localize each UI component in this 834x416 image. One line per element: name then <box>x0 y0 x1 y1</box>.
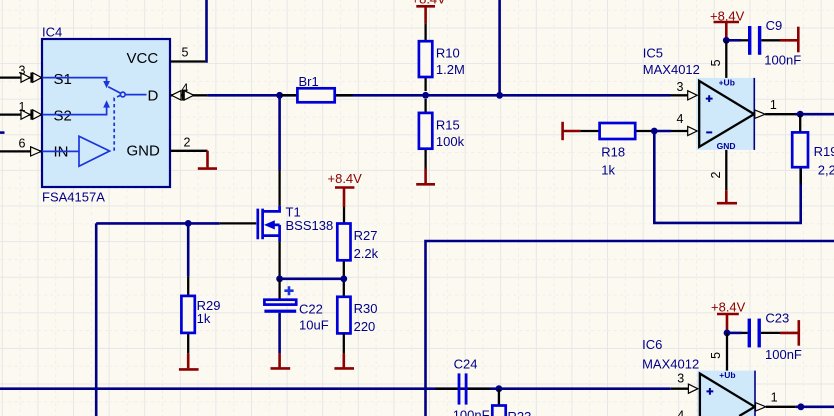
ground R30 <box>334 353 354 368</box>
pin 4 arrows <box>171 82 193 101</box>
resistor Br1 <box>281 74 354 102</box>
power +8.4V for IC6 <box>711 300 746 333</box>
svg-text:C22: C22 <box>299 301 323 316</box>
resistor R10 <box>419 23 465 91</box>
wire bottom net horizontal <box>0 387 671 390</box>
svg-text:1: 1 <box>770 98 777 112</box>
svg-text:4: 4 <box>182 82 189 96</box>
svg-text:100k: 100k <box>436 134 465 149</box>
svg-text:GND: GND <box>127 143 161 160</box>
op-amp IC6 MAX4012 <box>642 337 755 416</box>
svg-text:6: 6 <box>19 137 26 151</box>
ground C23 (rotated bar) <box>761 320 799 346</box>
capacitor C24 100nF <box>435 357 490 416</box>
svg-text:R10: R10 <box>436 45 460 60</box>
svg-text:100nF: 100nF <box>764 53 801 68</box>
node junction gate/R29 <box>185 220 192 227</box>
svg-text:4: 4 <box>677 112 684 126</box>
wire pin D <box>170 94 207 96</box>
pin 1 arrows <box>19 100 42 120</box>
svg-text:S1: S1 <box>54 71 72 88</box>
wire pin IN <box>0 150 42 152</box>
node junction R27/R30 <box>340 275 347 282</box>
svg-text:MAX4012: MAX4012 <box>642 356 699 371</box>
svg-text:S2: S2 <box>54 108 72 125</box>
wire pin S2 <box>0 113 42 115</box>
IC6 pin 5 <box>709 333 727 371</box>
svg-text:4: 4 <box>677 409 684 416</box>
node junction T1 source / C22 <box>276 275 283 282</box>
IC5 pin 2 <box>709 150 726 190</box>
svg-text:2,2k: 2,2k <box>818 163 834 178</box>
op-amp IC4 body FSA4157A <box>42 25 170 205</box>
ground R15 <box>416 169 435 185</box>
node junction R18 / pin4 <box>651 128 658 135</box>
wire feedback loop IC5 <box>654 114 800 223</box>
wire pin S1 <box>0 76 42 78</box>
ground IC5 pin2 <box>717 190 737 203</box>
IC5 pin 4 input <box>654 112 697 136</box>
svg-text:R18: R18 <box>601 145 625 160</box>
svg-text:VCC: VCC <box>127 50 159 67</box>
svg-text:+Ub: +Ub <box>719 370 735 380</box>
node junction R10/R15 <box>422 92 429 99</box>
wire supply to C23 <box>727 332 748 335</box>
resistor R15 <box>419 99 465 169</box>
IC6 pin 4 (cut) <box>677 409 684 416</box>
wire pin GND <box>170 136 208 151</box>
svg-text:FSA4157A: FSA4157A <box>42 190 105 205</box>
svg-text:3: 3 <box>677 80 684 94</box>
wire vertical from top to main net <box>498 0 501 95</box>
pin 6 arrow <box>19 137 42 157</box>
node junction IC6 output <box>798 403 805 410</box>
svg-text:Br1: Br1 <box>299 74 319 89</box>
svg-text:R15: R15 <box>436 117 460 132</box>
svg-text:+8.4V: +8.4V <box>711 300 746 315</box>
svg-text:1k: 1k <box>197 311 211 326</box>
svg-text:1: 1 <box>19 100 26 114</box>
svg-text:IC6: IC6 <box>642 337 662 352</box>
node stub left edge <box>0 131 5 134</box>
svg-text:220: 220 <box>354 319 376 334</box>
IC4 internal switch <box>42 78 147 151</box>
resistor R30 <box>337 297 377 354</box>
svg-text:C9: C9 <box>766 18 783 33</box>
svg-text:100nF: 100nF <box>453 408 490 416</box>
resistor R23 (cut) <box>492 389 531 416</box>
wire pin VCC to top <box>170 0 207 62</box>
capacitor C22 10uF <box>264 279 328 354</box>
capacitor C23 100nF <box>748 311 802 362</box>
supply terminator R18 left <box>563 122 581 140</box>
wire T1 source pin <box>278 242 280 278</box>
svg-text:1k: 1k <box>601 163 615 178</box>
power +8.4V top (cut) <box>412 0 447 23</box>
svg-text:5: 5 <box>182 46 189 60</box>
node junction IC5 supply <box>723 37 730 44</box>
svg-text:MAX4012: MAX4012 <box>643 62 700 77</box>
resistor R27 <box>337 207 378 297</box>
svg-text:IC5: IC5 <box>643 46 663 61</box>
wire drain down from Br1 node <box>278 95 281 206</box>
wire right angle net <box>426 241 834 416</box>
svg-text:IC4: IC4 <box>42 25 62 40</box>
svg-text:2: 2 <box>184 136 191 150</box>
capacitor C9 100nF <box>748 18 801 67</box>
svg-text:100nF: 100nF <box>765 347 802 362</box>
svg-text:BSS138: BSS138 <box>286 218 334 233</box>
svg-text:+Ub: +Ub <box>719 77 735 87</box>
svg-text:10uF: 10uF <box>299 318 329 333</box>
node junction Br1 left <box>276 92 283 99</box>
svg-text:2: 2 <box>709 172 723 179</box>
svg-text:D: D <box>148 88 159 105</box>
IC5 pin 3 input <box>671 80 698 100</box>
resistor R29 <box>181 223 220 353</box>
power +8.4V for IC5 <box>710 8 745 40</box>
svg-text:C23: C23 <box>765 311 789 326</box>
svg-text:5: 5 <box>709 352 723 359</box>
resistor R19 (cut) <box>792 132 834 177</box>
wire vertical left net <box>95 223 98 416</box>
wire gate net <box>96 222 256 225</box>
svg-text:C24: C24 <box>454 357 478 372</box>
node junction main/vertical <box>496 92 503 99</box>
svg-text:GND: GND <box>717 141 736 151</box>
ground R29 <box>179 353 199 369</box>
pin 3 arrows <box>19 64 42 83</box>
IC6 pin 3 input <box>671 371 698 393</box>
node junction C24 / R23 <box>496 385 503 392</box>
wire supply to C9 <box>726 39 748 42</box>
svg-text:5: 5 <box>709 59 723 66</box>
ground C9 (rotated bar) <box>761 27 798 53</box>
IC6 pin 1 output <box>756 391 834 411</box>
op-amp IC5 MAX4012 <box>643 46 755 151</box>
svg-text:+8.4V: +8.4V <box>328 171 363 186</box>
wire net main horizontal <box>207 94 670 97</box>
IC5 pin 1 output <box>755 98 834 119</box>
svg-text:1.2M: 1.2M <box>436 62 465 77</box>
svg-text:3: 3 <box>677 371 684 385</box>
svg-text:R19: R19 <box>814 144 834 159</box>
svg-text:R27: R27 <box>354 228 378 243</box>
node junction IC6 supply <box>724 330 731 337</box>
IC4 input buffer triangle <box>42 136 110 166</box>
wire source node to R27/R30 node <box>280 277 344 280</box>
power +8.4V for R27 <box>328 171 363 207</box>
ground IC4 pin2 <box>198 151 217 169</box>
IC5 pin 5 <box>709 40 726 78</box>
svg-text:3: 3 <box>19 64 26 78</box>
transistor T1 BSS138 <box>258 204 333 241</box>
ground C22 <box>271 353 291 368</box>
svg-text:R30: R30 <box>354 301 378 316</box>
svg-text:1: 1 <box>771 391 778 405</box>
svg-text:2.2k: 2.2k <box>354 246 379 261</box>
resistor R18 <box>580 123 654 178</box>
node junction IC5 output <box>797 111 804 118</box>
svg-text:R23: R23 <box>508 409 532 416</box>
